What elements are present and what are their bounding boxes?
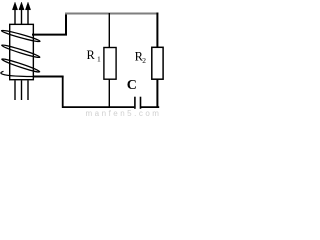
svg-text:1: 1 — [97, 55, 101, 64]
inductor L winding turn 3 — [1, 58, 40, 74]
wire R1 branch bottom — [108, 79, 110, 107]
wire bottom left segment — [62, 106, 134, 108]
core prong 1 — [14, 80, 16, 100]
inductor L winding turn 1 — [1, 29, 40, 43]
capacitor C plate right — [140, 97, 142, 109]
capacitor C plate left — [134, 97, 136, 109]
inductor L winding turn 2 — [1, 44, 40, 59]
core prong 2 — [21, 80, 23, 100]
resistor R2 box — [152, 47, 163, 79]
wire bottom right segment — [141, 106, 159, 108]
svg-text:manfen5.com: manfen5.com — [86, 109, 162, 118]
resistor R1 box — [104, 48, 116, 80]
svg-text:C: C — [127, 78, 137, 93]
inductor L winding half turn 4 — [1, 71, 34, 76]
arrow 2 — [19, 2, 24, 24]
wire top horizontal — [65, 13, 158, 15]
wire bottom from coil — [34, 76, 64, 78]
wire right branch top — [156, 13, 158, 48]
arrow 3 — [25, 2, 30, 24]
arrow 1 — [12, 2, 17, 24]
wire step vertical down — [62, 76, 64, 108]
svg-text:2: 2 — [142, 56, 146, 65]
core prong 3 — [27, 80, 29, 100]
wire R1 branch top — [108, 13, 110, 48]
wire right branch bottom — [156, 79, 158, 107]
wire step vertical up — [65, 13, 67, 36]
wire top from coil — [32, 34, 67, 36]
inductor core — [10, 24, 34, 79]
svg-text:R: R — [87, 48, 96, 62]
